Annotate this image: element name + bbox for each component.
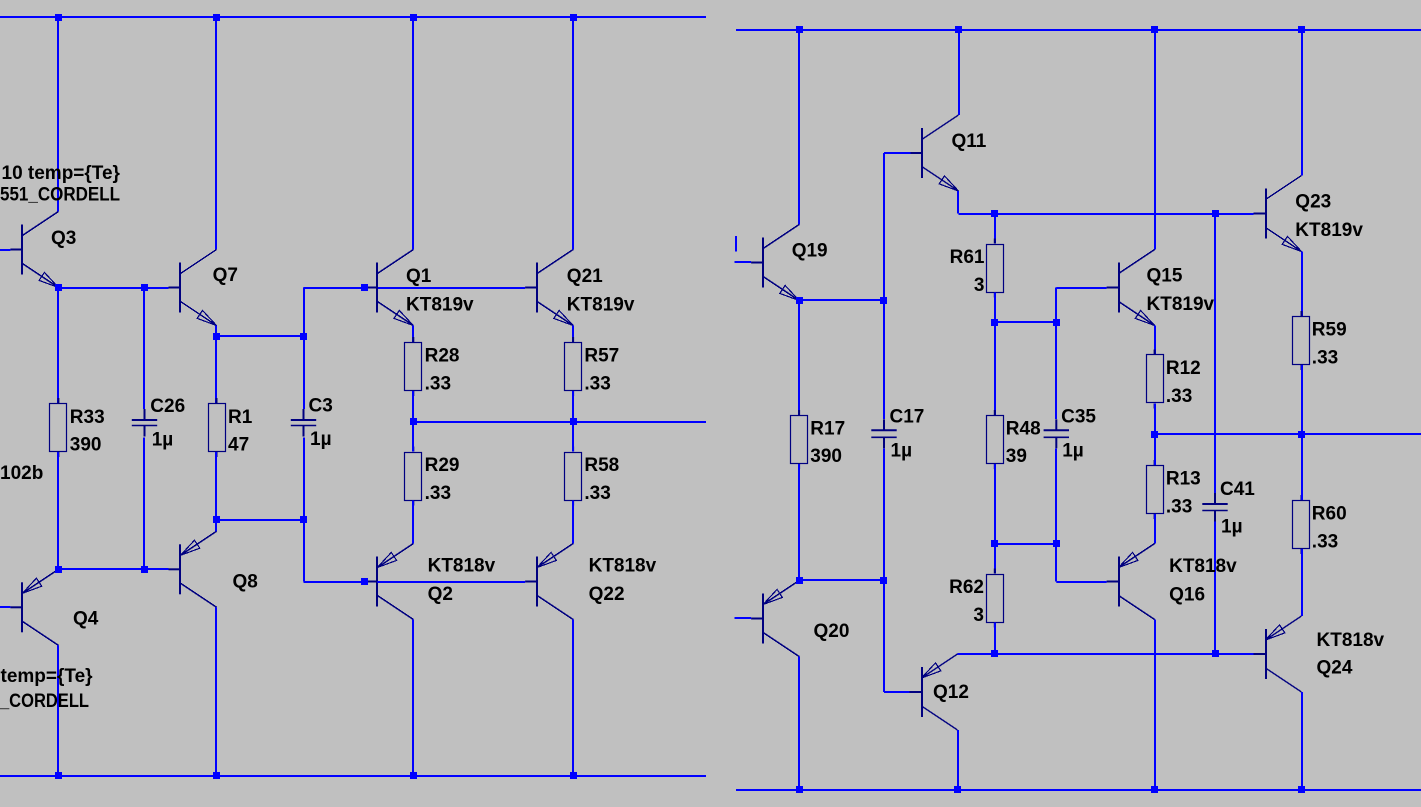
wire to C35 top [1055,323,1057,420]
wire bottom supply rail (right half) [736,789,1421,791]
resistor R62 [987,569,1004,628]
capacitor C26 [132,409,157,437]
svg-text:R13: R13 [1166,469,1201,490]
wire Q23 collector to top rail [1301,30,1303,176]
wire R61 bottom to row [994,293,996,323]
svg-text:.33: .33 [1166,386,1192,407]
junction bottom rail / Q24 collector [1298,786,1305,793]
svg-text:KT818v: KT818v [1169,556,1237,577]
svg-text:.33: .33 [1312,531,1338,552]
wire R48 bottom to row [994,464,996,544]
svg-text:.33: .33 [1166,496,1192,517]
junction C17 top node [880,297,887,304]
wire top supply rail (right half) [736,29,1421,31]
wire Q22 collector to bottom rail [572,620,574,777]
svg-text:KT819v: KT819v [1147,294,1215,315]
svg-text:Q22: Q22 [589,584,625,605]
wire Q21 collector to top rail [572,18,574,250]
junction bottom rail / Q2 collector [410,772,417,779]
junction R28-R29 output node [410,418,417,425]
resistor R28 [405,337,422,396]
svg-text:3: 3 [973,605,984,626]
wire down to Q2 base row [303,520,305,582]
wire Q23 emitter to R59 [1301,252,1303,317]
capacitor C3 [291,409,316,437]
svg-text:Q21: Q21 [567,266,603,287]
wire to Q1 base [304,287,366,289]
junction Q7 emitter node [213,333,220,340]
resistor R60 [1293,495,1310,554]
svg-text:1µ: 1µ [891,441,913,462]
wire Q23 base node down to C41 [1214,214,1216,494]
wire top supply rail (left half) [0,16,706,18]
svg-text:R58: R58 [584,455,619,476]
wire R13 to Q16 emitter [1154,514,1156,544]
junction C17 bottom node [880,577,887,584]
wire row 520 [217,519,304,521]
junction C3 bottom node [300,516,307,523]
wire down to R33 [57,288,59,404]
wire R1 bottom to row 520 [215,452,217,520]
wire Q8 emitter stub [215,520,217,531]
wire Q8 collector to bottom rail [215,607,217,776]
svg-text:Q4: Q4 [73,609,99,630]
junction bottom rail / Q22 collector [570,772,577,779]
transistor Q22 [525,544,573,620]
junction Q1 base node [361,284,368,291]
wire Q12 collector to bottom rail [957,730,959,790]
capacitor C35 [1044,419,1069,448]
svg-text:R62: R62 [949,577,984,598]
wire Q11 base [884,152,911,154]
junction C35 bottom node [1053,540,1060,547]
wire R60 to Q24 emitter [1301,549,1303,616]
svg-text:KT818v: KT818v [589,556,657,577]
transistor Q4 [10,569,58,645]
wire C35 bottom node down [1055,544,1057,582]
svg-text:Q16: Q16 [1169,585,1205,606]
svg-text:R59: R59 [1312,320,1347,341]
resistor R61 [987,239,1004,298]
junction top rail / Q23 collector [1298,26,1305,33]
svg-text:KT819v: KT819v [406,295,474,316]
svg-text:551_CORDELL: 551_CORDELL [0,185,120,206]
junction R61 top node [991,210,998,217]
junction top rail / Q1 collector [410,14,417,21]
junction bottom rail / Q12 collector [954,786,961,793]
wire Q20 emitter row [799,579,884,581]
svg-text:R60: R60 [1312,504,1347,525]
svg-text:Q1: Q1 [406,266,432,287]
wire R28 to mid row [412,391,414,422]
wire Q19 emitter row [799,299,884,301]
wire Q12 emitter row to Q24 base [958,653,1254,655]
junction Q20 emitter node [796,577,803,584]
transistor Q19 [751,225,799,301]
junction bottom rail / Q8 collector [213,772,220,779]
wire Q2 base to Q22 base [377,581,525,583]
junction top rail / Q19 collector [796,26,803,33]
wire to C26 top [143,288,145,410]
wire mid row to R13 [1154,435,1156,466]
svg-text:Q19: Q19 [792,241,828,262]
wire Q11 base down to Q19 emitter row [883,153,885,301]
svg-text:C41: C41 [1220,479,1255,500]
svg-text:R17: R17 [810,419,845,440]
svg-text:3: 3 [974,275,985,296]
wire mid row to R60 [1301,435,1303,501]
transistor Q21 [525,250,573,326]
transistor Q2 [365,544,413,620]
svg-text:R12: R12 [1166,358,1201,379]
wire mid row to R58 [572,422,574,452]
resistor R12 [1147,350,1164,409]
svg-text:R48: R48 [1006,419,1041,440]
svg-text:R57: R57 [584,346,619,367]
svg-text:1µ: 1µ [310,429,332,450]
svg-text:R33: R33 [70,407,105,428]
wire Q2 collector to bottom rail [412,620,414,777]
junction C35 top node [1053,319,1060,326]
transistor Q8 [169,531,217,607]
svg-text:.33: .33 [425,373,451,394]
wire R17 bottom to Q20 emitter row [798,464,800,581]
wire Q11 collector to top rail [958,30,960,116]
wire C35 node up [1055,288,1057,323]
wire R57 to mid row [572,391,574,422]
resistor R59 [1293,311,1310,370]
transistor Q24 [1254,616,1302,692]
wire Q16 collector to bottom rail [1154,620,1156,790]
wire Q11 emitter row to Q23 base [959,213,1254,215]
junction R1 bottom node [213,516,220,523]
svg-text:temp={Te}: temp={Te} [1,666,94,687]
transistor Q16 [1107,544,1155,620]
capacitor C17 [871,419,896,448]
svg-text:KT818v: KT818v [428,556,496,577]
wire Q24 collector to bottom rail [1301,692,1303,790]
resistor R48 [987,410,1004,469]
junction bottom rail / Q4 collector [55,772,62,779]
wire mid row to R29 [412,422,414,452]
svg-text:Q7: Q7 [213,265,238,286]
wire Q19 collector to top rail [798,30,800,225]
junction top rail / Q11 collector [955,26,962,33]
wire Q3 collector to top rail [57,18,59,212]
junction R59-R60 output node [1298,431,1305,438]
wire down to Q12 base [883,581,885,693]
resistor R13 [1147,460,1164,519]
transistor Q11 [911,115,959,191]
svg-text:.33: .33 [425,483,451,504]
svg-text:1µ: 1µ [1062,441,1084,462]
wire R59 to mid row [1301,365,1303,435]
wire Q1 emitter to R28 [412,326,414,343]
svg-text:Q15: Q15 [1147,266,1183,287]
wire Q12 base [884,691,910,693]
svg-text:R61: R61 [950,247,985,268]
wire Q4 base from left edge [0,606,10,608]
wire C41 bottom to Q24 base row [1214,522,1216,655]
junction R61-R48 node [991,319,998,326]
svg-text:Q2: Q2 [428,584,453,605]
wire Q3 base from left edge [0,249,10,251]
wire to R62 top [994,544,996,574]
junction Q4 emitter node [55,566,62,573]
wire C3 bottom to row 520 [303,438,305,521]
wire Q4 collector to bottom rail [57,645,59,776]
svg-text:.33: .33 [584,373,610,394]
junction top rail / Q15 collector [1151,26,1158,33]
svg-text:KT819v: KT819v [1295,220,1363,241]
svg-text:102b: 102b [0,463,43,484]
capacitor C41 [1202,493,1227,522]
wire C17 bottom [883,449,885,581]
wire Q1 collector to top rail [412,18,414,250]
svg-text:R1: R1 [228,407,253,428]
wire row R61-C35 [995,321,1057,323]
junction C26 bottom node [141,566,148,573]
svg-text:KT818v: KT818v [1317,630,1385,651]
resistor R17 [791,410,808,469]
junction R12-R13 output node [1151,431,1158,438]
wire C35 bottom to row [1055,449,1057,544]
wire down to R17 [798,301,800,416]
wire Q1 base to Q21 base [377,287,525,289]
svg-text:Q8: Q8 [233,572,258,593]
svg-text:R29: R29 [425,455,460,476]
wire Q15 emitter to R12 [1154,326,1156,355]
wire row R48-C35 bottom [995,543,1057,545]
junction Q23 base node [1212,210,1219,217]
transistor Q7 [169,250,217,326]
svg-text:Q3: Q3 [51,228,76,249]
resistor R57 [565,337,582,396]
wire R33 to lower row [57,452,59,569]
svg-text:47: 47 [228,434,249,455]
transistor Q3 [10,212,58,288]
svg-text:C3: C3 [309,396,333,417]
svg-text:_CORDELL: _CORDELL [0,691,89,712]
wire R29 to Q2 emitter [412,501,414,544]
junction C3 top node [300,333,307,340]
junction R62 bottom node [991,650,998,657]
wire bottom supply rail (left half) [0,775,706,777]
resistor R1 [209,398,226,457]
svg-text:Q11: Q11 [952,131,987,152]
wire Q4 emitter row to Q8 base [58,568,168,570]
junction top rail / Q3 collector [55,14,62,21]
junction C26 top node [141,284,148,291]
transistor Q20 [751,581,799,657]
resistor R33 [50,398,67,457]
transistor Q15 [1107,250,1155,326]
svg-text:390: 390 [810,446,842,467]
wire Q20 collector to bottom rail [798,657,800,790]
svg-text:Q23: Q23 [1295,192,1331,213]
wire output row to right edge (left half) [413,421,706,423]
wire down to R48 [994,323,996,416]
svg-text:C17: C17 [890,407,925,428]
svg-text:1µ: 1µ [1221,517,1243,538]
svg-text:R28: R28 [425,346,460,367]
wire to C3 top [303,337,305,410]
svg-text:KT819v: KT819v [567,295,635,316]
wire output row to right edge [1155,433,1421,435]
wire Q7 emitter row [217,335,304,337]
wire to Q2 base [304,581,366,583]
resistor R29 [405,447,422,506]
wire R12 to mid row [1154,404,1156,435]
junction top rail / Q7 collector [213,14,220,21]
svg-text:39: 39 [1006,446,1027,467]
svg-text:C26: C26 [150,396,185,417]
junction bottom rail / Q20 collector [796,786,803,793]
junction bottom rail / Q16 collector [1151,786,1158,793]
resistor R58 [565,447,582,506]
junction top rail / Q21 collector [570,14,577,21]
junction R57-R58 output node [570,418,577,425]
svg-text:Q24: Q24 [1317,658,1353,679]
wire Q15 collector to top rail [1154,30,1156,250]
transistor Q12 [910,654,958,730]
junction Q19 emitter node [796,297,803,304]
wire Q19 base from window edge [735,261,752,263]
junction Q3 emitter node [55,284,62,291]
svg-text:.33: .33 [1312,347,1338,368]
junction C41 bottom node [1212,650,1219,657]
wire to Q16 base [1056,581,1106,583]
svg-text:10 temp={Te}: 10 temp={Te} [2,163,121,184]
wire R58 to Q22 emitter [572,501,574,544]
wire R62 bottom to row [994,623,996,655]
svg-text:Q12: Q12 [933,682,969,703]
junction R48 bottom node [991,540,998,547]
wire Q21 emitter to R57 [572,326,574,343]
wire Q11 emitter down [957,191,959,214]
wire to Q15 base [1056,287,1106,289]
svg-text:Q20: Q20 [814,621,850,642]
wire to R61 top [994,214,996,244]
wire stub at left edge of right half [735,236,737,252]
wire Q7 collector to top rail [215,18,217,250]
junction Q2 base node [361,578,368,585]
wire Q3 emitter row to Q7 base [58,287,168,289]
svg-text:390: 390 [70,434,102,455]
wire down to R1 [215,337,217,404]
transistor Q1 [365,250,413,326]
transistor Q23 [1254,176,1302,252]
svg-text:.33: .33 [584,483,610,504]
wire C26 bottom to lower row [143,438,145,570]
svg-text:1µ: 1µ [152,430,174,451]
wire Q20 base from window edge [735,617,752,619]
wire to C17 top [883,301,885,420]
wire C3 node up to Q1 base row [303,288,305,337]
wire Q7 emitter stub [215,326,217,337]
svg-text:C35: C35 [1061,407,1096,428]
